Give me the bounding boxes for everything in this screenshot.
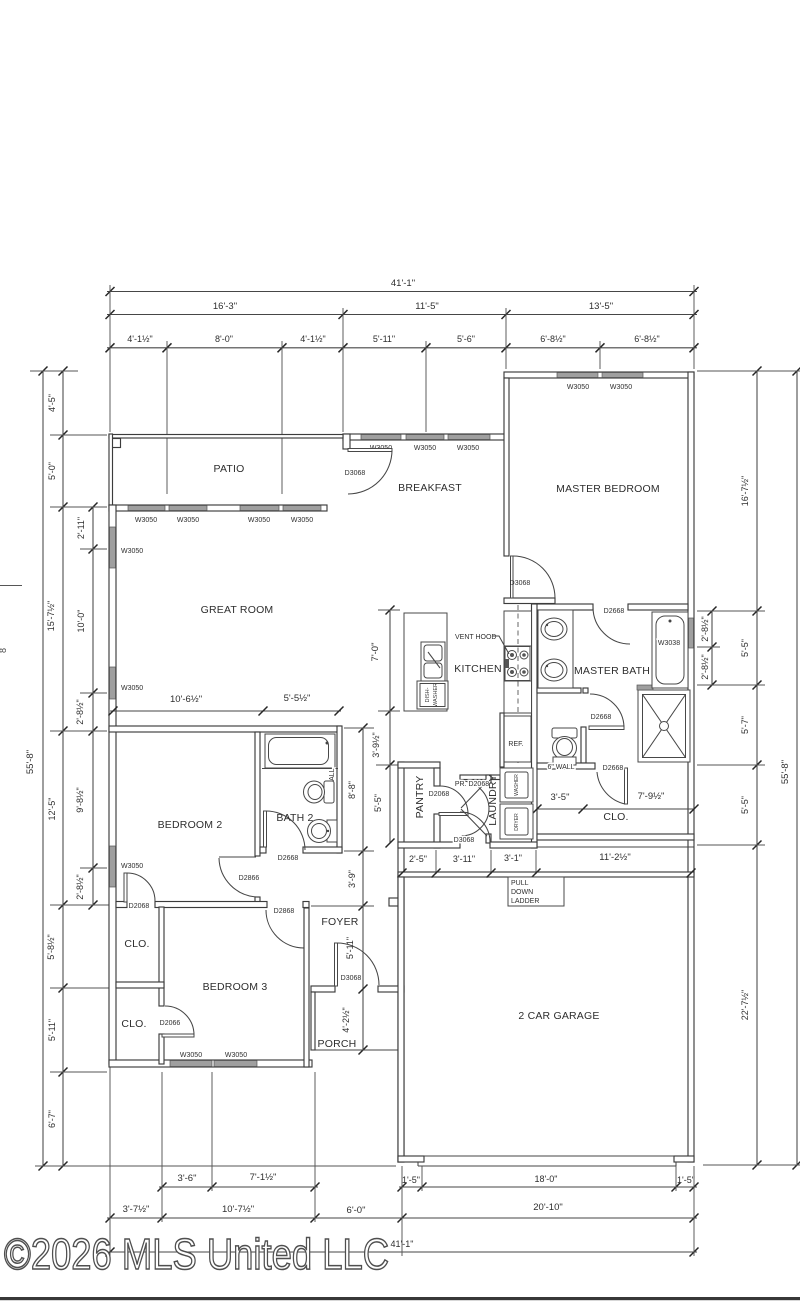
svg-text:5'-7": 5'-7": [740, 716, 750, 734]
svg-text:FOYER: FOYER: [321, 916, 358, 928]
svg-text:5'-11": 5'-11": [345, 937, 355, 959]
svg-text:5'-8½": 5'-8½": [46, 934, 56, 959]
svg-text:MASTER BEDROOM: MASTER BEDROOM: [556, 483, 660, 495]
left extension lines: [30, 370, 78, 372]
pantry / laundry: [389, 762, 537, 1162]
svg-text:13'-5": 13'-5": [589, 301, 613, 312]
shower master: [637, 685, 690, 762]
south exterior wall bedroom3/closet: [109, 1060, 312, 1067]
REF nook wall: [500, 713, 504, 767]
wall pantry-garage-foyer east long wall: [398, 762, 404, 1162]
pantry east wall lower: [434, 814, 440, 848]
window W3050 pair master bedroom top: [557, 373, 599, 378]
svg-text:5'-6": 5'-6": [457, 334, 475, 344]
foyer south wall with front door D3068: [311, 986, 335, 992]
svg-text:D2668: D2668: [603, 765, 624, 772]
wall master bath north: [536, 604, 593, 610]
svg-text:BATH 2: BATH 2: [276, 812, 313, 824]
svg-text:CLO.: CLO.: [124, 938, 149, 950]
door D2668 master closet: [597, 765, 628, 804]
svg-text:W3050: W3050: [457, 445, 479, 452]
closet divider wall: [116, 982, 164, 988]
range cooktop: [505, 647, 530, 681]
door D2868 bedroom3: [266, 908, 304, 948]
svg-text:20'-10": 20'-10": [533, 1202, 562, 1213]
svg-text:3'-11": 3'-11": [453, 854, 475, 864]
svg-text:41'-1": 41'-1": [391, 278, 415, 289]
left col 55'-8": [25, 367, 48, 1171]
right dimension block: [697, 367, 800, 1170]
svg-text:8'-0": 8'-0": [215, 334, 233, 344]
great room top wall: [109, 505, 327, 511]
svg-text:W3050: W3050: [225, 1052, 247, 1059]
patio left wall: [109, 434, 113, 506]
svg-text:2'-8½": 2'-8½": [75, 874, 85, 899]
svg-text:D2066: D2066: [160, 1020, 181, 1027]
svg-text:KITCHEN: KITCHEN: [454, 663, 502, 675]
svg-text:W3038: W3038: [658, 640, 680, 647]
svg-text:PATIO: PATIO: [214, 463, 245, 475]
svg-text:7'-0": 7'-0": [370, 643, 381, 662]
washer: [500, 768, 533, 802]
right col 55'-8": [780, 367, 800, 1170]
closet south wall: [537, 834, 694, 840]
svg-text:2'-8½": 2'-8½": [700, 616, 710, 641]
svg-text:7'-9½": 7'-9½": [638, 791, 665, 802]
svg-text:©2026 MLS United LLC: ©2026 MLS United LLC: [4, 1230, 389, 1279]
svg-text:DOWN: DOWN: [511, 889, 533, 896]
svg-text:6'-8½": 6'-8½": [540, 334, 565, 344]
vent hood label + leader: [455, 634, 509, 654]
dishwasher: [417, 681, 448, 709]
svg-text:D2668: D2668: [604, 608, 625, 615]
svg-text:4'-5": 4'-5": [47, 394, 57, 412]
bedroom3 east wall: [304, 908, 309, 1067]
bedroom2 north wall: [109, 726, 341, 732]
wall breakfast west jamb + patio door: [343, 434, 350, 449]
svg-text:W3050: W3050: [121, 685, 143, 692]
left col segments 4'-5/5'-0/15'-7.5/12'-5/5'-8.5/5'-11/6'-7: [46, 367, 68, 1171]
svg-text:BEDROOM 2: BEDROOM 2: [158, 819, 223, 831]
svg-text:D2068: D2068: [429, 791, 450, 798]
west exterior wall: [109, 505, 116, 1064]
toilet bath2: [304, 781, 335, 803]
svg-text:6'-0": 6'-0": [347, 1205, 366, 1216]
kitchen east wall: [532, 604, 538, 848]
svg-text:PULL: PULL: [511, 880, 529, 887]
svg-text:W3050: W3050: [567, 384, 589, 391]
top extension lines: [109, 285, 111, 432]
svg-text:3'-9½": 3'-9½": [371, 732, 381, 757]
garage west wall: [398, 877, 404, 1162]
svg-text:D2866: D2866: [239, 875, 260, 882]
porch front edge: [311, 1049, 398, 1051]
stray tick at left edge: [0, 585, 22, 587]
svg-text:6'-7": 6'-7": [47, 1110, 57, 1128]
svg-text:8: 8: [0, 648, 8, 653]
svg-text:5'-5": 5'-5": [740, 796, 750, 814]
svg-text:6" WALL: 6" WALL: [547, 764, 574, 771]
svg-text:1'-5": 1'-5": [677, 1175, 695, 1185]
door D2668 master bath entry: [593, 604, 688, 644]
svg-text:W3050: W3050: [180, 1052, 202, 1059]
svg-text:GREAT ROOM: GREAT ROOM: [201, 604, 274, 616]
porch west wall: [311, 992, 315, 1050]
svg-text:W3050: W3050: [414, 445, 436, 452]
svg-text:5'-11": 5'-11": [373, 334, 395, 344]
wall east exterior (master bedroom/bath/garage right): [688, 372, 694, 1162]
svg-text:VENT HOOD: VENT HOOD: [455, 634, 497, 641]
svg-text:W3050: W3050: [121, 863, 143, 870]
svg-text:11'-2½": 11'-2½": [599, 852, 630, 863]
top dimension block: [106, 278, 699, 494]
water closet east wall: [581, 727, 586, 763]
dim row 3'-7.5 / 10'-7.5 / 6'-0 / 20'-10: [106, 1202, 699, 1223]
dim 10'-6.5" / 5'-5.5": [109, 693, 344, 716]
svg-text:18'-0": 18'-0": [535, 1174, 558, 1184]
svg-text:5'-5½": 5'-5½": [284, 693, 311, 704]
svg-text:W3050: W3050: [248, 517, 270, 524]
bedroom2 / bath2: [109, 693, 344, 948]
refrigerator: [502, 716, 531, 762]
pull down ladder box: [508, 877, 564, 906]
right col 16'-7.5/5'-5/5'-7/5'-5/22'-7.5: [740, 367, 762, 1170]
wall master bedroom south left piece: [504, 598, 555, 604]
hall dim col 8'-8" / 3'-9" / 5'-11" / 4'-2.5": [311, 724, 374, 1055]
svg-text:WASHER: WASHER: [514, 774, 520, 796]
svg-text:CLO.: CLO.: [121, 1018, 146, 1030]
svg-text:2'-5": 2'-5": [409, 854, 427, 864]
windows W3050 x4 great room top: [128, 506, 165, 511]
pantry top wall: [398, 762, 440, 768]
water closet north wall: [537, 688, 581, 693]
svg-text:W3050: W3050: [121, 548, 143, 555]
left dimension block: [0, 367, 396, 1171]
garage north wall: [398, 872, 694, 877]
windows W3050 pair bedroom3 south: [170, 1061, 212, 1067]
garage wall notch: [389, 898, 398, 906]
tub bath2: [262, 734, 338, 769]
dim row 16'-3" / 11'-5" / 13'-5": [106, 301, 699, 319]
bath2 right wall: [337, 726, 342, 853]
door D2668 bath2: [264, 811, 306, 862]
tub master with window W3038: [652, 612, 688, 688]
bedroom2 south wall: [116, 902, 127, 908]
svg-text:D3068: D3068: [510, 580, 531, 587]
svg-text:D2068: D2068: [129, 903, 150, 910]
svg-text:REF.: REF.: [508, 741, 523, 748]
dashed upper cabinet line: [517, 605, 519, 765]
svg-text:D3068: D3068: [341, 975, 362, 982]
right extension lines: [697, 370, 800, 372]
bottom border line: [0, 1297, 800, 1300]
svg-text:3'-5": 3'-5": [551, 792, 570, 803]
svg-text:55'-8": 55'-8": [780, 760, 791, 784]
interior walls and doors: [504, 378, 699, 848]
svg-text:2'-11": 2'-11": [76, 517, 86, 539]
kitchen: [370, 605, 532, 848]
bath2 south wall: [303, 847, 342, 853]
door D2668 water closet: [589, 694, 624, 730]
window W3050 bedroom2 west: [110, 846, 116, 887]
svg-text:55'-8": 55'-8": [25, 750, 36, 774]
svg-text:D2668: D2668: [591, 714, 612, 721]
window W3038 master bath east: [689, 618, 694, 648]
bottom extension lines: [109, 1067, 111, 1256]
svg-text:5'-5": 5'-5": [373, 794, 383, 812]
dim row 4'-1.5 / 8'-0 / 4'-1.5 / 5'-11 / 5'-6 / 6'-8.5 / 6'-8.5: [106, 334, 699, 352]
windows W3050 x3 breakfast top: [361, 435, 401, 440]
laundry west wall stubs: [486, 775, 491, 783]
window W3050 great room west upper: [110, 527, 116, 568]
svg-text:PR. D2068: PR. D2068: [455, 781, 489, 788]
svg-text:3'-9": 3'-9": [347, 870, 357, 888]
svg-text:10'-0": 10'-0": [76, 610, 86, 633]
svg-text:11'-5": 11'-5": [415, 301, 439, 312]
kitchen 7'-0" dim col + 3'-9.5" + 5'-5": [370, 606, 400, 848]
svg-text:16'-3": 16'-3": [213, 301, 237, 312]
svg-text:10'-7½": 10'-7½": [222, 1204, 254, 1215]
sink bath2: [308, 820, 338, 843]
svg-text:9'-8½": 9'-8½": [75, 787, 85, 812]
svg-text:LAUNDRY: LAUNDRY: [487, 774, 499, 825]
closets / bedroom3 / foyer / porch: [116, 907, 404, 1067]
window W3050 great room west lower: [110, 667, 116, 699]
pantry east wall upper: [434, 768, 440, 786]
svg-text:2'-8½": 2'-8½": [700, 654, 710, 679]
kitchen island: [404, 613, 448, 711]
svg-text:WASHER: WASHER: [433, 683, 439, 707]
dim row 41'-1" top: [106, 278, 699, 296]
svg-text:2'-8½": 2'-8½": [75, 699, 85, 724]
right inner col 2'-8.5 x2: [700, 607, 717, 690]
svg-text:BEDROOM 3: BEDROOM 3: [203, 981, 268, 993]
wall master bedroom top: [504, 372, 694, 378]
dims 3'-6" / 7'-1.5": [158, 1172, 320, 1192]
svg-text:5'-5": 5'-5": [740, 639, 750, 657]
room labels: [121, 463, 660, 1050]
svg-text:8'-8": 8'-8": [347, 781, 357, 799]
svg-text:4'-2½": 4'-2½": [341, 1007, 351, 1032]
garage top dim ticks: [398, 852, 696, 878]
master closet dim 3'-5" / 7'-9.5": [533, 791, 699, 814]
door D2866 bedroom2 east: [219, 857, 259, 897]
svg-text:15'-7½": 15'-7½": [46, 601, 56, 631]
wall breakfast top: [343, 434, 506, 440]
door D2066 bedroom3 closet: [160, 1006, 194, 1037]
svg-text:12'-5": 12'-5": [47, 798, 57, 821]
svg-text:CLO.: CLO.: [603, 811, 628, 823]
svg-text:D2668: D2668: [278, 855, 299, 862]
bath2 west wall / bedroom2 east wall: [255, 732, 260, 856]
patio top wall: [109, 435, 343, 439]
door D2068 bedroom2: [124, 873, 155, 910]
svg-text:W3050: W3050: [177, 517, 199, 524]
garage south wall + door: [398, 1156, 424, 1162]
svg-text:D2868: D2868: [274, 908, 295, 915]
svg-text:W3050: W3050: [135, 517, 157, 524]
svg-text:6'-8½": 6'-8½": [634, 334, 659, 344]
svg-text:5'-11": 5'-11": [47, 1019, 57, 1041]
svg-text:BREAKFAST: BREAKFAST: [398, 482, 462, 494]
bedroom2 east wall below door: [255, 897, 260, 905]
svg-text:D3068: D3068: [345, 470, 366, 477]
svg-text:DISH-: DISH-: [425, 687, 431, 702]
svg-text:4'-1½": 4'-1½": [300, 334, 325, 344]
wall master bedroom west: [504, 378, 509, 556]
svg-text:PANTRY: PANTRY: [414, 776, 426, 819]
svg-text:7'-1½": 7'-1½": [250, 1172, 277, 1183]
svg-text:DRYER: DRYER: [514, 813, 520, 831]
door D3068 master bedroom: [510, 556, 555, 598]
svg-text:3'-7½": 3'-7½": [123, 1204, 150, 1215]
vanity master bath double: [538, 610, 573, 688]
garage: [398, 850, 696, 1166]
svg-text:LADDER: LADDER: [511, 898, 539, 905]
svg-text:MASTER BATH: MASTER BATH: [574, 665, 650, 677]
svg-text:4'-1½": 4'-1½": [127, 334, 152, 344]
svg-text:1'-5": 1'-5": [402, 1175, 420, 1185]
water closet south wall: [537, 763, 595, 769]
svg-text:D3068: D3068: [454, 837, 475, 844]
dim row 41'-1" bottom: [106, 1239, 699, 1257]
laundry south wall with door D3068 to garage: [398, 842, 460, 848]
svg-text:W3050: W3050: [291, 517, 313, 524]
left inner col 2'-11/10'-0/2'-8.5/9'-8.5/2'-8.5: [75, 503, 98, 910]
svg-text:PORCH: PORCH: [318, 1038, 357, 1050]
svg-text:22'-7½": 22'-7½": [740, 990, 750, 1020]
svg-text:3'-1": 3'-1": [504, 853, 522, 863]
door D2068 pantry: [429, 786, 468, 816]
exterior walls: [109, 372, 694, 1162]
svg-text:10'-6½": 10'-6½": [170, 694, 202, 705]
svg-text:3'-6": 3'-6": [178, 1173, 197, 1184]
laundry pair doors PR. D2068: [455, 781, 489, 836]
garage door dims 1'-5 / 18'-0 / 1'-5: [398, 1174, 699, 1192]
patio post notch: [111, 439, 121, 448]
svg-text:16'-7½": 16'-7½": [740, 476, 750, 506]
toilet master: [552, 728, 577, 765]
bottom dimension block: [106, 1067, 699, 1257]
svg-text:5'-0": 5'-0": [47, 462, 57, 480]
svg-text:W3050: W3050: [610, 384, 632, 391]
svg-text:2 CAR GARAGE: 2 CAR GARAGE: [518, 1010, 599, 1022]
closet east wall (bedroom3 west wall): [159, 907, 164, 1006]
dryer: [500, 804, 533, 839]
laundry top wall: [460, 775, 500, 780]
door D3068 patio/breakfast: [345, 449, 392, 495]
kitchen counter east run: [504, 611, 532, 713]
